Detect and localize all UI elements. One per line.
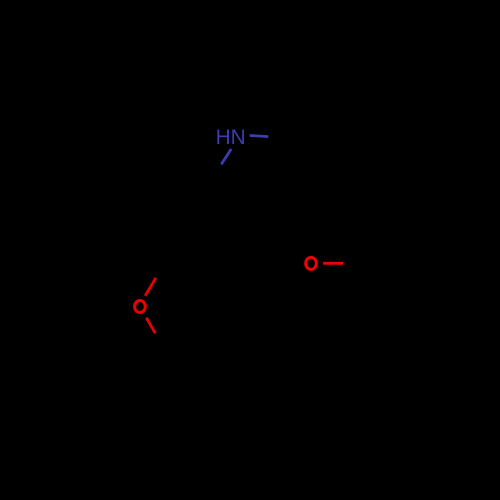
wire N to C (down-left half-bond) xyxy=(221,149,231,164)
svg-text:HN: HN xyxy=(216,126,246,149)
wire N to C (right half-bond) xyxy=(250,136,269,137)
ether oxygen O2 xyxy=(135,300,146,312)
wire O2 to C (down-right half-bond) xyxy=(146,318,155,334)
wire O2 to C (up-right half-bond) xyxy=(145,278,156,296)
ether oxygen O1 xyxy=(306,257,317,269)
wire O1 to C (right half-bond) xyxy=(323,262,343,265)
